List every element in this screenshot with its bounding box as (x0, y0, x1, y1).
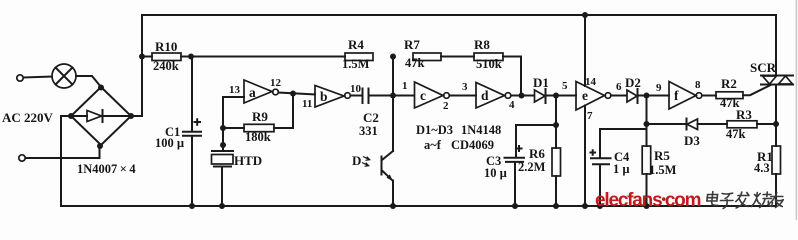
svg-text:47k: 47k (720, 96, 740, 110)
svg-text:SCR: SCR (750, 60, 777, 75)
wire bridge left corner to ground rail (61, 115, 71, 117)
wire R7 to R8 (441, 56, 474, 58)
svg-text:R9: R9 (252, 109, 268, 124)
node ground rail C1 (189, 203, 195, 209)
wire R9 feedback (223, 94, 293, 128)
svg-text:a: a (249, 85, 256, 100)
piezo sounder HTD (212, 151, 234, 206)
node R10 right (188, 54, 194, 60)
node pin14 rail junction (582, 12, 588, 18)
svg-text:100 µ: 100 µ (155, 136, 184, 150)
watermark chinese characters (706, 192, 784, 209)
capacitor C3 (505, 146, 525, 162)
label D transistor with arrows (352, 153, 370, 168)
node f input junction (644, 93, 650, 99)
wire R4 riser (392, 57, 394, 96)
wire C4 to ground (599, 165, 601, 207)
svg-text:1N4007 × 4: 1N4007 × 4 (77, 162, 136, 176)
svg-text:D2: D2 (625, 75, 641, 90)
wire C3 to ground (514, 162, 516, 206)
bridge rectifier 1N4007x4 diamond (71, 87, 131, 145)
node a output junction (290, 91, 296, 97)
svg-text:R2: R2 (721, 76, 737, 91)
resistor R4 (345, 53, 373, 61)
wire lower terminal to bridge bottom corner (26, 146, 100, 158)
svg-text:7: 7 (587, 110, 593, 122)
node ground rail R5 (644, 203, 650, 209)
capacitor C4 (591, 150, 611, 164)
svg-text:D1~D3: D1~D3 (416, 123, 453, 137)
svg-text:5: 5 (562, 80, 568, 92)
wire c output to d input (450, 95, 477, 97)
wire d output to D1 (511, 95, 533, 97)
lamp (52, 64, 76, 88)
svg-text:1: 1 (402, 80, 408, 92)
svg-text:14: 14 (585, 76, 597, 88)
resistor R5 (642, 146, 651, 174)
terminal upper AC (17, 75, 23, 81)
wire C2 to node (369, 95, 414, 97)
op-amp inverter d (476, 83, 511, 109)
svg-text:2.2M: 2.2M (518, 160, 546, 174)
svg-text:R4: R4 (348, 37, 364, 52)
wire R5 branch riser (646, 96, 648, 147)
svg-text:HTD: HTD (234, 153, 262, 168)
wire C3 R6 branch riser (555, 96, 557, 149)
capacitor C1 (183, 119, 201, 136)
wire D2 to f input (638, 95, 670, 97)
svg-text:1 µ: 1 µ (613, 162, 630, 176)
node bridge top corner (98, 85, 104, 91)
capacitor C2 (363, 89, 369, 104)
svg-text:47k: 47k (405, 56, 425, 70)
wire R1 to ground rail (775, 174, 777, 206)
node bridge left corner (68, 113, 74, 119)
node R4 R7 junction (390, 54, 396, 60)
wire b output to C2 (351, 95, 363, 97)
wire a output to b input (279, 93, 316, 95)
node bridge bottom corner (97, 143, 103, 149)
svg-text:c: c (420, 88, 426, 103)
svg-text:1N4148: 1N4148 (461, 123, 501, 137)
diode D3 (687, 119, 698, 130)
svg-text:10 µ: 10 µ (484, 166, 507, 180)
svg-text:C2: C2 (363, 110, 379, 125)
wire inverter a input branch (223, 97, 244, 151)
wire f output to R2 (702, 95, 716, 97)
wire R5 to ground (646, 174, 648, 206)
svg-text:D1: D1 (533, 75, 549, 90)
wire SCR anode to top rail (775, 15, 777, 76)
svg-text:AC 220V: AC 220V (2, 110, 54, 125)
wire e output to D2 (611, 95, 626, 97)
node ground rail C3 (512, 203, 518, 209)
svg-text:10: 10 (350, 83, 362, 95)
scan edge artifact right (796, 0, 798, 220)
thyristor SCR triac (761, 76, 793, 85)
resistor R6 (552, 148, 561, 176)
op-amp inverter f (669, 82, 702, 110)
svg-text:4.3: 4.3 (754, 161, 770, 175)
svg-text:4: 4 (509, 99, 515, 111)
svg-text:D: D (352, 153, 361, 168)
svg-text:12: 12 (270, 77, 282, 89)
svg-text:240k: 240k (153, 59, 179, 73)
svg-text:R7: R7 (404, 37, 420, 52)
svg-text:510k: 510k (476, 57, 502, 71)
svg-text:d: d (481, 88, 489, 103)
svg-text:D3: D3 (684, 133, 700, 148)
svg-text:a~f: a~f (424, 138, 442, 152)
node e input junction (553, 93, 559, 99)
svg-text:47k: 47k (726, 127, 746, 141)
resistor R7 (413, 53, 441, 61)
svg-text:11: 11 (302, 98, 312, 110)
diode D2 (627, 89, 638, 103)
node ground rail HTD (219, 203, 225, 209)
svg-text:13: 13 (229, 84, 241, 96)
node ground rail R6 (553, 203, 559, 209)
wire R2 to SCR gate (743, 85, 771, 95)
svg-text:b: b (320, 89, 328, 104)
svg-text:R6: R6 (529, 146, 545, 161)
node bridge right corner (128, 113, 134, 119)
svg-text:f: f (674, 88, 679, 103)
node ground rail emitter (390, 203, 396, 209)
svg-text:1.5M: 1.5M (342, 57, 370, 71)
wire left rail drop to R10 row and bridge (132, 15, 142, 116)
wire R8 drop to d output (503, 57, 521, 96)
diode D1 (535, 89, 546, 103)
wire bottom ground rail (61, 116, 776, 206)
svg-text:8: 8 (695, 79, 701, 91)
resistor R3 (727, 121, 757, 128)
resistor R10 (152, 53, 181, 61)
op-amp inverter e (576, 82, 611, 111)
wire C4 branch (600, 129, 647, 158)
node HTD top junction (220, 142, 226, 148)
node R3 right junction (773, 121, 779, 127)
wire terminal to lamp (24, 77, 53, 78)
wire SCR cathode down to R1 (775, 85, 777, 147)
node d output junction (519, 93, 525, 99)
resistor R2 (716, 92, 743, 99)
resistor R9 (244, 124, 274, 131)
wire e pin14 to top rail (584, 15, 586, 86)
svg-text:6: 6 (616, 81, 622, 93)
node ground rail C4 (597, 203, 603, 209)
node oscillator junction (390, 93, 396, 99)
terminal lower AC (19, 155, 25, 161)
node R9 left junction (220, 125, 226, 131)
wire R6 to ground (555, 176, 557, 206)
op-amp inverter c (415, 82, 450, 108)
svg-text:R10: R10 (155, 39, 177, 54)
node C3 branch junction (553, 122, 559, 128)
svg-text:R5: R5 (654, 148, 670, 163)
wire e pin7 to ground (584, 106, 586, 207)
transistor Q1 driver (382, 96, 394, 207)
svg-text:R8: R8 (474, 37, 490, 52)
wire C3 branch (516, 125, 556, 158)
node ground rail pin7 (582, 203, 588, 209)
svg-text:e: e (582, 88, 588, 103)
svg-text:CD4069: CD4069 (451, 138, 494, 152)
svg-text:2: 2 (443, 100, 449, 112)
wire D3 row (647, 123, 777, 125)
resistor R1 (772, 146, 781, 174)
wire C1 branch (191, 57, 193, 207)
svg-text:180k: 180k (245, 130, 271, 144)
wire lamp to bridge top corner (76, 76, 101, 87)
svg-text:1.5M: 1.5M (649, 163, 677, 177)
bridge internal diode (74, 110, 128, 122)
node D3 row junction (644, 121, 650, 127)
svg-text:9: 9 (656, 82, 662, 94)
node R10 left (139, 54, 145, 60)
wire top supply rail (142, 14, 775, 16)
op-amp inverter b (315, 86, 350, 108)
wire D1 to e input (545, 95, 576, 97)
op-amp inverter a (244, 80, 278, 103)
svg-text:3: 3 (462, 81, 468, 93)
resistor R8 (474, 53, 503, 61)
svg-text:elecfans•com: elecfans•com (595, 190, 701, 211)
svg-text:331: 331 (359, 124, 378, 138)
wire R10 row (142, 56, 345, 58)
